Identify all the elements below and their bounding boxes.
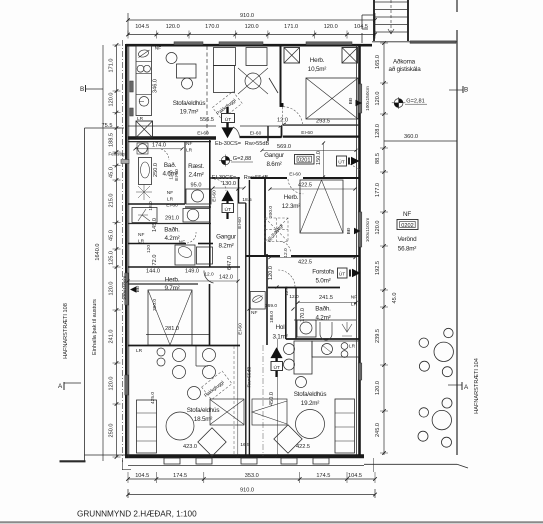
svg-text:144.0: 144.0 [146,269,160,275]
svg-text:NF: NF [167,190,173,196]
outer wall left [125,44,128,458]
wall forstofa bottom / badh top (y=287.5) [268,287,340,289]
svg-text:Baðh.: Baðh. [315,305,331,313]
tv/chair triangle [238,68,268,94]
svg-text:8.2m²: 8.2m² [218,243,233,250]
trees cluster 1 [444,328,453,337]
shower right [342,322,352,336]
svg-text:149.0: 149.0 [185,269,199,275]
svg-text:Stofa/eldhús: Stofa/eldhús [187,407,220,414]
svg-text:Ræst.: Ræst. [188,163,204,170]
svg-text:281.0: 281.0 [165,326,179,332]
interior dim ticks [133,147,136,150]
svg-text:647.0: 647.0 [227,256,233,270]
LR exit arrow east forstofa [338,268,348,278]
svg-text:128.0: 128.0 [375,124,381,138]
svg-text:HAFNARSTRÆTI 108: HAFNARSTRÆTI 108 [63,303,69,359]
svg-text:100x110cm: 100x110cm [365,218,371,242]
sofa left [137,400,157,453]
svg-text:104.5: 104.5 [135,24,149,30]
kitchen circle lower [139,97,149,107]
window left wall upper 2 [130,108,133,116]
wall bedroom1 left (x=280.5) [280,46,282,104]
kitchen hob circles [137,65,144,72]
svg-text:88.5: 88.5 [375,153,381,164]
shower bath4.2 [132,208,157,223]
svg-text:390.0: 390.0 [152,299,158,311]
svg-text:Einhalla þak til austurs: Einhalla þak til austurs [92,299,98,355]
window right wall lower [358,363,362,380]
svg-text:104.5: 104.5 [348,473,362,479]
svg-text:569.0: 569.0 [277,144,291,150]
svg-text:Eb-30CS=: Eb-30CS= [215,141,241,147]
svg-text:95.0: 95.0 [191,183,202,189]
svg-text:423.0: 423.0 [183,444,197,450]
svg-text:Rw>55dB: Rw>55dB [244,175,269,181]
stair landing lines [362,14,374,16]
svg-text:Stofa/eldhús: Stofa/eldhús [173,100,206,107]
door hinge blob [280,103,283,106]
svg-text:170.0: 170.0 [205,24,219,30]
wall y=267 laundry bottom [128,266,240,268]
svg-text:72.0: 72.0 [152,255,158,266]
sofa vertical part [214,66,235,93]
sofa top 2 [246,48,267,66]
svg-text:BÐ: BÐ [348,97,354,104]
thin partition line y=126 [128,125,216,127]
svg-text:171.0: 171.0 [284,24,298,30]
window left wall lower [125,375,129,395]
UT exit arrow north right unit [272,350,280,378]
svg-text:12.0: 12.0 [204,272,214,278]
shower symbol bath4.6 [136,184,152,200]
svg-text:120.0: 120.0 [245,24,259,30]
svg-text:174.5: 174.5 [173,473,187,479]
sink circle [322,344,333,355]
adkoma top line [372,41,457,43]
svg-text:45.0: 45.0 [392,293,398,304]
round table [166,412,194,440]
svg-text:250.0: 250.0 [109,424,115,438]
exterior stair top [373,0,375,41]
central wall jog y=203 [239,202,246,204]
svg-text:ÚT: ÚT [338,159,344,166]
toilet circle [138,144,148,154]
svg-text:Bað.: Bað. [164,161,177,169]
svg-text:200.0: 200.0 [268,206,274,218]
svg-text:Aðkoma: Aðkoma [393,58,416,66]
exterior step/planter box [196,458,212,464]
dining chair bottom [182,78,193,89]
dashed lines flanking central wall [233,346,235,456]
wall herb9.7 top y=284 [128,283,198,285]
svg-text:8.6m²: 8.6m² [266,161,281,168]
raest bottom wall (y=207) [185,206,211,208]
svg-text:EI-60: EI-60 [174,169,180,181]
svg-text:174.5: 174.5 [316,473,330,479]
door arc badh4.2 left (dashed) [187,232,196,243]
pakkgluggi dashed box 2 [202,371,232,400]
window right wall 100x150cm [358,84,362,113]
svg-text:EI-30CS=: EI-30CS= [212,175,236,181]
inner face left wall [128,45,130,458]
svg-text:LR: LR [138,239,145,245]
svg-text:556.5: 556.5 [200,117,214,123]
svg-text:120.0: 120.0 [375,221,381,235]
bed against wall right unit [252,399,287,425]
dining chair top [166,53,177,64]
svg-text:Verönd: Verönd [398,236,417,243]
central wall x=245 [245,203,247,456]
svg-text:293.5: 293.5 [316,119,330,125]
svg-text:Herb.: Herb. [165,277,180,284]
right dimension line with ticks [383,43,385,455]
outer wall bottom [125,454,364,458]
LR exit arrow east gangur8.6 [337,156,347,166]
wall centerline left (dash-dot) [122,40,124,462]
svg-text:LR: LR [136,348,143,354]
svg-text:EI-60: EI-60 [238,323,244,335]
svg-text:120.0: 120.0 [109,282,115,296]
svg-text:0202: 0202 [401,223,413,229]
svg-text:Herb.: Herb. [310,57,325,64]
svg-text:NF: NF [351,295,357,301]
svg-text:100x110cm: 100x110cm [122,276,128,300]
kitchen circles row [157,348,165,356]
svg-text:Rw>55dB: Rw>55dB [245,141,270,147]
svg-text:EI-60: EI-60 [301,130,313,136]
svg-text:12.0: 12.0 [283,248,289,258]
door arc herb9.7 [204,271,214,284]
svg-text:BÐ: BÐ [346,227,352,234]
svg-text:19.7m²: 19.7m² [180,109,199,116]
svg-text:0201: 0201 [298,157,310,163]
window right wall 100x110cm [358,212,362,247]
svg-text:16.5: 16.5 [240,442,250,448]
svg-text:250.0: 250.0 [153,163,159,177]
svg-text:120.0: 120.0 [109,377,115,391]
svg-text:2.4m²: 2.4m² [188,172,203,179]
svg-text:LR: LR [186,148,193,154]
svg-text:Gangur: Gangur [216,234,236,241]
corridor top wall segment y=178 left [210,177,241,179]
door arc stair lobby (dashed) [280,242,291,253]
overall left dim 1640.0 [102,45,104,461]
bottom edge strip [0,521,543,523]
svg-text:NF: NF [251,310,257,316]
svg-text:ÚT: ÚT [339,271,345,278]
wall hol left (x=267) [266,254,268,345]
svg-text:291.0: 291.0 [165,216,179,222]
raest west wall x=185 [184,142,186,204]
svg-text:Stofa/eldhús: Stofa/eldhús [294,391,327,398]
wall badh right unit left (x=285.8) [285,288,287,340]
counter top row [312,341,359,357]
exterior step/planter box [281,458,297,464]
bath4.6 bottom wall (y=204) [128,203,185,205]
flat number box 0201 [295,155,315,165]
spiral stair dashed [265,218,288,242]
exterior step/planter box [241,458,257,464]
svg-text:GRUNNMYND 2.HÆÐAR, 1:100: GRUNNMYND 2.HÆÐAR, 1:100 [77,510,197,519]
svg-text:4.2m²: 4.2m² [164,235,179,242]
svg-text:EI-60: EI-60 [166,203,178,209]
svg-text:3.1m²: 3.1m² [272,334,287,341]
door arc hol-badh right (dashed) [278,270,295,287]
svg-text:Rw>55dB: Rw>55dB [247,367,253,388]
thin line bed bottom y=334.5 [146,334,209,336]
door leaf dashed [281,107,283,125]
svg-text:Herb.: Herb. [284,194,299,201]
svg-text:120.0: 120.0 [166,24,180,30]
trees cluster 2 [442,398,452,408]
svg-text:422.5: 422.5 [296,444,310,450]
svg-text:NF: NF [155,46,161,52]
svg-text:19.2m²: 19.2m² [301,400,320,407]
svg-text:120.0: 120.0 [375,92,381,106]
main corridor wall y=137 right parts [240,136,282,138]
wall above forstofa (y=256) [246,255,280,257]
wall herb12.3 left (x=256.5) [264,178,266,256]
svg-text:1640.0: 1640.0 [95,243,101,260]
svg-text:Fellistigi: Fellistigi [108,152,125,158]
svg-text:12.0: 12.0 [289,294,299,300]
left outer boundary line [84,128,86,461]
svg-text:169.0: 169.0 [265,303,277,309]
door arc bath4.6 (dashed) [161,149,169,160]
svg-text:ÚT: ÚT [225,116,231,123]
wardrobe X-box right [342,48,358,64]
hol west wall x=250.5 [248,180,250,456]
svg-text:ÚT: ÚT [224,206,230,213]
svg-text:100x150cm: 100x150cm [365,86,371,111]
svg-text:353.0: 353.0 [245,473,259,479]
svg-text:9.7m²: 9.7m² [164,285,179,292]
svg-text:HAFNARSTRÆTI 104: HAFNARSTRÆTI 104 [474,358,480,414]
door arc corridor (dashed) [214,179,226,191]
svg-text:241.5: 241.5 [319,295,333,301]
G=2.81 symbol [394,99,403,108]
svg-text:120: 120 [146,245,152,253]
svg-text:910.0: 910.0 [240,488,254,494]
wall stofa18.5 top y=345.5 [128,345,240,347]
svg-text:18.5: 18.5 [242,197,252,203]
sink U [320,322,332,340]
raest sink [186,189,211,204]
svg-text:45.0: 45.0 [109,230,115,241]
svg-text:Baðh.: Baðh. [164,226,180,234]
sofa right unit [335,399,355,453]
svg-text:130.0: 130.0 [222,181,236,187]
wall connector x=281.5 [281,126,283,138]
wardrobe X-box left [284,48,300,64]
bed herb12.3 [300,180,343,233]
sofa top 1 [214,48,236,66]
svg-text:NF: NF [186,141,192,147]
svg-text:215.0: 215.0 [109,194,115,208]
svg-text:EI-60: EI-60 [197,131,209,137]
fold-down stair hatch on left wall [121,160,129,164]
dim tick door [279,123,286,128]
svg-text:171.0: 171.0 [109,59,115,73]
outer wall top [126,44,372,47]
svg-text:104.5: 104.5 [135,473,149,479]
washing machine [175,245,195,265]
svg-text:192.5: 192.5 [375,261,381,275]
badh fixtures: toilet [297,320,316,337]
bed against wall left unit [210,399,244,425]
wall y=243.5 corridor [128,243,186,245]
svg-text:B: B [464,87,468,94]
svg-text:241.0: 241.0 [109,330,115,344]
svg-text:239.5: 239.5 [375,329,381,343]
wardrobe X-box kitchen end [136,121,153,138]
kitchen island [294,341,312,374]
exterior step/planter box [313,458,329,464]
svg-text:45.0: 45.0 [109,167,115,178]
bedroom1 wall joint x=268 [267,126,269,141]
window top wall 1 [174,42,203,45]
svg-text:12:0: 12:0 [277,118,288,124]
svg-text:56.8m²: 56.8m² [398,246,417,253]
bath raest top wall y=141.5 [128,141,211,143]
svg-text:EI-60: EI-60 [250,131,262,137]
wall gangur8.6 bottom (y=178) [251,177,288,179]
svg-text:G=2,81: G=2,81 [406,99,425,105]
badh right unit inner wall x=296 [295,288,297,340]
kitchen counter strip [136,46,152,116]
toilet bath4.2 [183,209,210,223]
kitchen counter lines [195,346,197,366]
door swing curve corridor [233,127,240,137]
UT exit arrow north gangur8.2 [223,193,231,220]
dim corner bottom-left [121,460,123,470]
wall y=223.5 under shower block [128,223,211,225]
wall herb9.7 right x=209.5 [209,284,211,346]
svg-text:B: B [80,86,84,93]
window left wall 100x110cm [125,273,129,305]
ground line bottom left [60,460,86,462]
svg-text:Forstofa: Forstofa [312,269,334,276]
svg-text:245.0: 245.0 [375,423,381,437]
svg-text:188.5: 188.5 [109,133,115,147]
kitchen sink oval [138,49,150,58]
svg-text:422.5: 422.5 [298,260,312,266]
svg-text:EI-60: EI-60 [237,217,243,229]
small circle below [296,377,307,388]
svg-text:120.0: 120.0 [268,266,274,280]
door arc bedroom1 (dashed) [283,107,303,125]
svg-text:120.0: 120.0 [324,24,338,30]
window top wall 2 [219,42,263,45]
kitchen circles [284,344,295,355]
outer wall right [358,44,361,455]
round table right [296,410,325,439]
svg-text:NF: NF [403,211,411,218]
svg-text:174.0: 174.0 [152,143,166,149]
svg-text:NF: NF [138,232,144,238]
svg-text:10,5m²: 10,5m² [308,66,327,73]
svg-text:ÚT: ÚT [273,364,279,371]
svg-text:4.2m²: 4.2m² [315,315,330,322]
UT label box [222,114,235,123]
svg-text:120.0: 120.0 [375,381,381,395]
UT exit down arrow top unit [226,107,228,113]
inner face right wall [356,45,358,455]
dashed box pakkgluggi [212,91,242,119]
svg-text:177.0: 177.0 [375,183,381,197]
diamond chair [198,428,226,456]
slanted line [269,78,278,93]
bathtub [139,158,152,185]
main corridor wall y=137.5 left part [128,136,216,139]
G=2.88 symbol [221,156,229,164]
window left wall upper 1 [130,81,133,92]
svg-text:145.0: 145.0 [152,218,158,232]
svg-text:Hol: Hol [276,324,285,331]
svg-text:142.0: 142.0 [219,275,233,281]
exterior step/planter box [164,458,180,464]
svg-text:EI-60: EI-60 [289,172,301,178]
svg-text:18.0: 18.0 [148,201,154,211]
wall x=211 raest right [209,140,211,267]
diamond chair right [274,425,302,453]
svg-text:5.0m²: 5.0m² [315,278,330,285]
svg-text:að gistiskála: að gistiskála [388,65,421,73]
dining table [177,64,197,78]
second appliance box [197,247,213,264]
svg-text:346.0: 346.0 [153,79,159,93]
svg-text:G=2,88: G=2,88 [233,156,252,162]
dimension row bottom segments [128,478,375,480]
svg-text:165.0: 165.0 [375,55,381,69]
svg-text:188.0: 188.0 [269,311,275,323]
terrace bottom line [364,463,457,465]
interior wall badh fixtures top y=320 [294,319,356,321]
bed herb10.5 [306,78,358,119]
dim line 647.0 x=237.8 [237,189,239,456]
dashed partition top unit x=207 [206,46,208,135]
site boundary right [456,0,458,12]
bed herb9.7 [148,290,192,345]
svg-text:425.0: 425.0 [150,392,156,404]
svg-text:450.0: 450.0 [269,392,275,406]
svg-text:LR: LR [349,344,356,350]
svg-text:120.0: 120.0 [109,93,115,107]
svg-text:18.5m²: 18.5m² [194,416,213,423]
svg-text:125.0: 125.0 [109,251,115,265]
svg-text:360.0: 360.0 [404,134,418,140]
central wall upper x=238.5 [238,177,240,204]
svg-text:12.3m²: 12.3m² [282,203,301,210]
svg-text:12.0: 12.0 [169,170,175,180]
svg-text:150.0: 150.0 [316,151,322,165]
svg-text:LR: LR [167,197,174,203]
svg-text:EI-60: EI-60 [212,190,218,202]
laundry hol [250,292,265,310]
svg-text:910.0: 910.0 [240,13,254,19]
wall badh bottom/kitchen top right unit (y=339) [286,338,359,340]
left dimension line with ticks [116,45,118,457]
window top wall 3 [306,42,352,45]
svg-text:Gangur: Gangur [264,152,284,159]
